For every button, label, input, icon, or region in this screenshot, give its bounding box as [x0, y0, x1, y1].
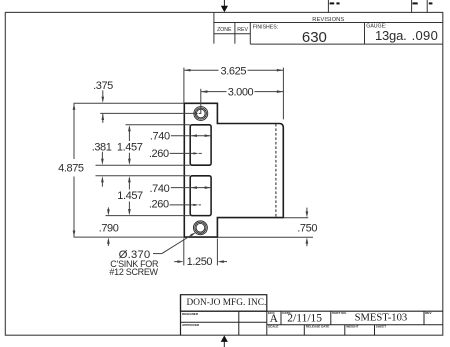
fold-mark arrow top — [221, 0, 228, 12]
countersink leader and note — [109, 232, 196, 277]
svg-text:630: 630 — [302, 29, 327, 46]
dimension .790 cutout to bottom edge — [99, 207, 119, 246]
dimension 1.250 plate width — [174, 239, 227, 269]
svg-text:13ga.: 13ga. — [375, 28, 407, 43]
dimension 1.457 upper cutout height — [117, 125, 143, 165]
top screw hole — [194, 107, 208, 121]
svg-text:1.457: 1.457 — [117, 141, 143, 153]
svg-text:REV: REV — [237, 27, 248, 33]
svg-text:.381: .381 — [92, 141, 112, 153]
dimension 4.875 overall height — [58, 104, 84, 237]
title block frame — [181, 295, 443, 336]
dimension 3.000 hole to right edge — [201, 87, 283, 113]
svg-text:4.875: 4.875 — [58, 163, 84, 175]
svg-text:SMEST-103: SMEST-103 — [355, 312, 408, 323]
svg-text:1.250: 1.250 — [187, 256, 213, 268]
svg-text:.260: .260 — [149, 198, 169, 210]
dimension .375 edge to hole centre — [93, 80, 113, 123]
upper cutout — [190, 125, 211, 165]
extension lines left side — [74, 103, 202, 237]
svg-text:RELEASE DATE: RELEASE DATE — [306, 325, 330, 329]
dimension 3.625 overall width — [184, 65, 284, 119]
bottom screw hole — [193, 221, 207, 235]
lower cutout — [190, 176, 211, 216]
svg-text:DON-JO MFG. INC.: DON-JO MFG. INC. — [187, 298, 267, 308]
svg-text:A: A — [270, 313, 279, 325]
dimension 1.457 lower cutout height — [117, 176, 143, 215]
dimension .740 upper cutout width — [150, 131, 211, 143]
svg-text:3.625: 3.625 — [221, 65, 247, 77]
svg-text:.750: .750 — [297, 222, 317, 234]
svg-text:2/11/15: 2/11/15 — [287, 313, 322, 325]
svg-text:1.457: 1.457 — [117, 190, 143, 202]
svg-text:.375: .375 — [93, 80, 113, 92]
svg-text:SCALE: SCALE — [268, 325, 278, 329]
dimension .260 upper cutout offset — [149, 148, 202, 160]
fold-mark arrow bottom — [221, 335, 228, 347]
svg-text:WEIGHT: WEIGHT — [346, 325, 358, 329]
svg-text:REVISIONS: REVISIONS — [312, 17, 344, 23]
svg-text:.740: .740 — [149, 183, 169, 195]
svg-text:.260: .260 — [149, 148, 169, 160]
svg-text:.090: .090 — [412, 28, 439, 43]
svg-text:APPROVED: APPROVED — [182, 323, 200, 327]
svg-text:.790: .790 — [99, 222, 119, 234]
dimension .260 lower cutout offset — [149, 198, 201, 210]
dimension .750 lip to bottom edge — [218, 208, 318, 247]
strike plate outline — [184, 103, 283, 237]
svg-text:SHEET: SHEET — [376, 325, 386, 329]
svg-text:#12 SCREW: #12 SCREW — [109, 267, 158, 277]
svg-text:PART NO.: PART NO. — [332, 311, 347, 315]
svg-text:DESIGNER: DESIGNER — [182, 312, 199, 316]
svg-text:3.000: 3.000 — [228, 87, 254, 99]
revision history cells (cut off at sheet top) — [328, 0, 432, 12]
bend line — [275, 124, 277, 217]
svg-text:ZONE: ZONE — [217, 27, 232, 33]
svg-text:REV: REV — [425, 311, 431, 315]
revisions table frame — [214, 12, 443, 44]
dimension .381 gap between cutouts — [92, 141, 112, 186]
svg-text:.740: .740 — [150, 131, 170, 143]
dimension .740 lower cutout width — [149, 183, 211, 195]
svg-text:FINISHES:: FINISHES: — [253, 24, 278, 30]
